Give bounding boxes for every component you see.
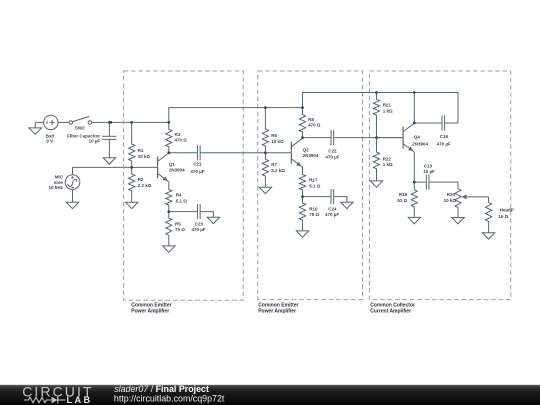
svg-text:R7: R7: [271, 162, 277, 167]
label R20 10k: [444, 192, 457, 203]
transistor Q4: [403, 123, 414, 152]
svg-text:R4: R4: [176, 193, 182, 198]
capacitor C24: [331, 189, 334, 204]
node rail3/R21: [375, 91, 378, 94]
node rail/R1: [130, 121, 133, 124]
label C16 470uF: [437, 134, 451, 146]
wire collector net A (left): [169, 152, 198, 154]
svg-text:9 V: 9 V: [46, 138, 53, 143]
ground (C24): [341, 202, 353, 208]
stage box 1 (Common Emitter Power Amplifier): [124, 71, 244, 300]
resistor R6: [262, 108, 268, 153]
wire emitter stage3: [413, 152, 415, 182]
source MIC (sine 10kHz): [65, 175, 80, 190]
svg-text:470 µF: 470 µF: [190, 169, 204, 174]
svg-text:R8: R8: [308, 117, 314, 122]
wiper arrow R20: [461, 195, 488, 200]
wire collector to C16: [414, 122, 441, 124]
ground (R2): [126, 202, 138, 208]
resistor R1: [129, 122, 135, 167]
svg-text:1 kΩ: 1 kΩ: [383, 108, 393, 113]
node rail/filter-cap: [109, 121, 112, 124]
label R6 10k: [271, 133, 284, 144]
node rail2/R8/riser: [301, 106, 304, 109]
battery V1 (Batt 9V): [44, 115, 58, 129]
ground (HeadP): [482, 233, 494, 239]
svg-text:Q1: Q1: [169, 162, 176, 167]
svg-text:10 µF: 10 µF: [89, 138, 101, 143]
svg-text:470 µF: 470 µF: [437, 141, 451, 146]
svg-text:C10: C10: [424, 163, 433, 168]
node rail3/Q4-collector: [413, 91, 416, 94]
svg-text:http://circuitlab.com/cq9p72t: http://circuitlab.com/cq9p72t: [114, 394, 225, 404]
node R4/R5/C23: [167, 210, 170, 213]
label C10 10uF: [423, 163, 435, 174]
node collector Q2: [301, 136, 304, 139]
resistor R5: [166, 212, 172, 246]
svg-text:470 µF: 470 µF: [192, 227, 206, 232]
label Batt 9V: [46, 133, 55, 143]
switch SW2: [69, 117, 92, 125]
svg-text:R3: R3: [175, 132, 181, 137]
node R17/R10/C24: [301, 195, 304, 198]
svg-text:C16: C16: [440, 134, 449, 139]
svg-text:75 Ω: 75 Ω: [309, 212, 319, 217]
node filter-cap junction: [108, 121, 111, 124]
wire C24 to ground: [334, 197, 347, 203]
svg-text:R2: R2: [138, 177, 144, 182]
svg-text:10 kΩ: 10 kΩ: [138, 154, 151, 159]
wire collector net B (left): [303, 137, 331, 139]
svg-text:2.2 kΩ: 2.2 kΩ: [271, 168, 285, 173]
svg-text:C21: C21: [193, 162, 202, 167]
svg-text:470 µF: 470 µF: [325, 154, 339, 159]
svg-text:1 kΩ: 1 kΩ: [383, 162, 393, 167]
wire R4-C23 junction to C23: [169, 211, 198, 213]
stage box 2 (Common Emitter Power Amplifier): [258, 71, 363, 300]
ground (R5): [163, 246, 175, 252]
svg-text:SW2: SW2: [75, 126, 85, 131]
svg-text:C23: C23: [195, 222, 204, 227]
resistor R10: [299, 197, 305, 231]
svg-text:10 kΩ: 10 kΩ: [444, 198, 457, 203]
label R22 1k: [383, 156, 393, 167]
svg-text:10 µF: 10 µF: [423, 169, 435, 174]
label R5 75: [175, 222, 185, 233]
svg-text:2N3904: 2N3904: [169, 168, 185, 173]
node collector Q4 / C16: [413, 122, 416, 125]
capacitor C10: [426, 175, 429, 190]
svg-text:R17: R17: [309, 178, 318, 183]
resistor R4: [166, 182, 172, 212]
label Q4 2N3904: [412, 135, 428, 147]
label HeadP 16: [498, 208, 513, 219]
transistor Q1: [158, 153, 169, 182]
label MIC sine 10kHz: [49, 175, 64, 191]
svg-text:C24: C24: [328, 207, 337, 212]
svg-text:R10: R10: [309, 207, 318, 212]
capacitor Filter Capacitor 10uF: [102, 122, 116, 157]
svg-text:16 Ω: 16 Ω: [498, 214, 508, 219]
wire battery to switch: [58, 121, 69, 123]
label R2 2.2k: [138, 177, 152, 188]
label R8 470: [308, 117, 321, 128]
wire MIC to base net: [73, 167, 158, 174]
svg-text:LAB: LAB: [67, 395, 93, 405]
svg-text:C22: C22: [328, 148, 337, 153]
svg-text:Current Amplifier: Current Amplifier: [370, 308, 411, 314]
resistor HeadP: [486, 197, 492, 233]
stage box 3 (Common Collector Current Amplifier): [369, 71, 510, 300]
ground (R22): [370, 181, 382, 187]
svg-text:5.1 Ω: 5.1 Ω: [176, 198, 188, 203]
wire R17-C24 junction to C24: [303, 196, 331, 198]
footer bar: [0, 385, 540, 405]
svg-text:R5: R5: [175, 222, 181, 227]
svg-text:470 Ω: 470 Ω: [308, 123, 321, 128]
label C24 470uF: [325, 207, 339, 218]
svg-text:R6: R6: [271, 133, 277, 138]
label stage1: [131, 303, 171, 315]
capacitor C21: [198, 145, 201, 160]
wire emitter junction to C10: [414, 181, 426, 183]
wire supply riser stage2/stage3: [169, 93, 458, 124]
wire base net stage3: [377, 137, 404, 139]
capacitor C16: [442, 115, 445, 130]
wire C16 to rail corner: [445, 122, 458, 124]
label C21 470uF: [190, 162, 204, 174]
svg-text:75 Ω: 75 Ω: [175, 227, 185, 232]
svg-text:R1: R1: [138, 148, 144, 153]
ground (R10): [296, 231, 308, 237]
CircuitLab logo: [22, 383, 93, 405]
ground (R7): [259, 187, 271, 193]
label stage3: [370, 303, 415, 315]
wire C10 to R20: [429, 182, 458, 189]
svg-text:5.1 Ω: 5.1 Ω: [309, 183, 321, 188]
resistor R21: [373, 93, 379, 138]
label SW2: [75, 126, 85, 131]
resistor R19: [411, 182, 417, 217]
svg-text:R22: R22: [383, 156, 392, 161]
capacitor C22: [331, 130, 334, 145]
svg-text:HeadP: HeadP: [500, 208, 514, 213]
ground (R20): [452, 218, 464, 224]
label R10 75: [309, 207, 319, 218]
svg-text:2.2 kΩ: 2.2 kΩ: [138, 183, 152, 188]
ground (R19): [408, 217, 420, 223]
svg-text:R19: R19: [399, 192, 408, 197]
label C23 470uF: [192, 222, 206, 233]
label C22 470uF: [325, 148, 339, 159]
label R17 5.1: [309, 178, 321, 189]
resistor R22: [373, 138, 379, 181]
label R7 2.2k: [271, 162, 285, 173]
label Q2 2N3904: [303, 148, 319, 159]
svg-text:Power Amplifier: Power Amplifier: [131, 308, 169, 314]
resistor R2: [129, 167, 135, 202]
node collector Q1: [167, 151, 170, 154]
svg-text:Power Amplifier: Power Amplifier: [258, 308, 296, 314]
resistor R7: [262, 153, 268, 187]
resistor R3: [166, 122, 172, 152]
svg-text:R20: R20: [447, 192, 456, 197]
label R19 51: [397, 192, 407, 203]
svg-text:Q2: Q2: [303, 148, 310, 153]
ground (MIC): [66, 189, 78, 208]
wire supply rail: [92, 121, 169, 123]
svg-text:51 Ω: 51 Ω: [397, 198, 407, 203]
node rail2/R6: [264, 106, 267, 109]
svg-text:10 kHz: 10 kHz: [49, 185, 64, 190]
label R4 5.1: [176, 193, 188, 204]
wire net A to stage2: [200, 152, 291, 154]
resistor R17: [299, 167, 305, 197]
node base3 (R21/R22): [375, 136, 378, 139]
svg-text:Q4: Q4: [414, 135, 421, 140]
svg-text:10 kΩ: 10 kΩ: [271, 139, 284, 144]
label R21 1k: [383, 103, 393, 114]
footer title text: [114, 384, 225, 403]
capacitor C23: [198, 204, 201, 219]
node base1 (R1/R2/MIC): [130, 166, 133, 169]
wire net B to stage3: [334, 137, 403, 139]
potentiometer R20: [455, 189, 461, 218]
wire collector to rail: [413, 93, 415, 124]
label R1 10k: [138, 148, 151, 159]
label Filter Capacitor 10 uF: [67, 133, 100, 143]
svg-text:2N3904: 2N3904: [303, 153, 319, 158]
label R3 470: [175, 132, 188, 143]
svg-text:MIC: MIC: [55, 175, 64, 180]
svg-text:2N3904: 2N3904: [412, 142, 428, 147]
ground (battery negative): [29, 122, 44, 134]
node base2 (R6/R7): [264, 151, 267, 154]
svg-text:sine: sine: [54, 180, 64, 185]
node emitter Q4 / C10 / R19: [413, 181, 416, 184]
ground (filter capacitor): [103, 158, 115, 164]
svg-text:470 Ω: 470 Ω: [175, 138, 188, 143]
svg-text:R21: R21: [383, 103, 392, 108]
transistor Q2: [291, 138, 302, 167]
ground (C23): [207, 217, 219, 223]
label Q1 2N3904: [169, 162, 185, 173]
wire C23 to ground: [200, 212, 213, 218]
svg-text:470 µF: 470 µF: [325, 212, 339, 217]
resistor R8: [299, 108, 305, 138]
label stage2: [258, 303, 298, 315]
node rail/R3/riser: [167, 121, 170, 124]
